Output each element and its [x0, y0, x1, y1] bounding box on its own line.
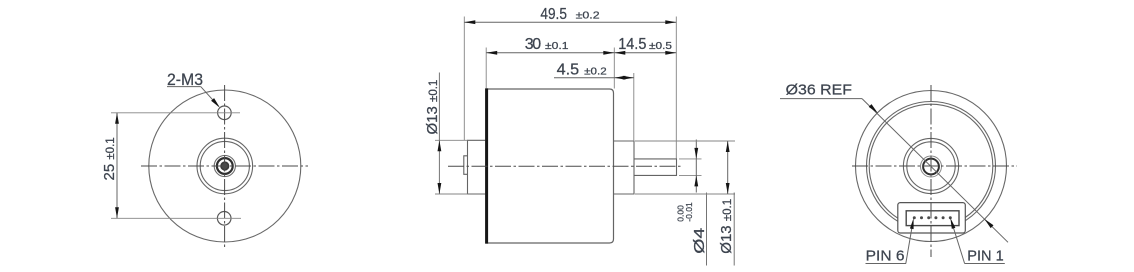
mounting hole top	[218, 106, 232, 120]
25 dim extension line bottom	[111, 217, 241, 219]
PIN 1 underline	[965, 263, 1005, 265]
rear ring inner	[869, 104, 993, 228]
30 ext line left	[485, 48, 487, 89]
rear hub ring outer	[903, 138, 958, 193]
shaft center dot	[221, 162, 229, 170]
49.5 dim line	[464, 21, 676, 23]
svg-text:4.5: 4.5	[557, 62, 580, 79]
25 dim arrow bottom	[115, 207, 119, 218]
motor outer circle (front view)	[149, 90, 301, 242]
body front thick edge	[485, 88, 488, 243]
dia4 ext top	[679, 158, 702, 160]
output shaft (dia 4)	[634, 159, 677, 176]
30 arrow left	[486, 51, 497, 55]
rear outer circle (dia 36)	[856, 91, 1007, 242]
connector pins	[913, 216, 952, 219]
dia13 right ext bottom	[635, 193, 735, 195]
connector inner housing	[906, 211, 959, 226]
rear ring outer	[867, 102, 996, 231]
middle view horizontal centerline	[448, 165, 683, 167]
svg-text:±0.1: ±0.1	[545, 40, 569, 52]
25 dim line	[116, 113, 118, 219]
2-M3 leader	[201, 87, 219, 107]
4.5 arrow left	[614, 76, 625, 80]
mounting hole bottom	[217, 212, 231, 226]
2-M3 underline	[167, 86, 201, 88]
rear stub	[464, 156, 468, 175]
25 dim arrow top	[115, 113, 119, 124]
svg-text:30: 30	[525, 36, 542, 53]
PIN 6 leader	[906, 226, 912, 264]
svg-text:Ø4: Ø4	[691, 228, 708, 254]
dia13 right dim line	[727, 141, 729, 194]
dia4 arrow top (outside, pointing down)	[694, 148, 698, 159]
svg-text:PIN 1: PIN 1	[967, 247, 1003, 264]
right view horizontal centerline	[852, 165, 1017, 167]
dia13 left arrow top	[438, 140, 442, 151]
shaft circle (thick)	[217, 158, 233, 174]
4.5 ext line (shaft step)	[633, 73, 635, 141]
dia13 right ext top	[635, 140, 735, 142]
connector outer housing	[898, 203, 966, 233]
front collar (dia 13)	[614, 141, 635, 194]
dia13 right arrow top	[726, 141, 730, 152]
30/14.5 shared ext line	[613, 48, 615, 89]
PIN 1 arrowhead	[950, 218, 955, 229]
14.5 arrow left	[614, 51, 625, 55]
svg-text:49.5: 49.5	[540, 6, 567, 23]
49.5 ext line left	[463, 17, 465, 141]
14.5 arrow right	[665, 51, 676, 55]
49.5 arrow left	[464, 20, 475, 24]
rear boss (dia 13)	[468, 140, 486, 194]
2-M3 arrowhead	[211, 98, 220, 108]
dia13 right label underline	[733, 193, 735, 266]
hub outer ring	[197, 138, 253, 194]
30 dim line	[486, 52, 614, 54]
49.5 arrow right	[665, 20, 676, 24]
dia13 left arrow bottom	[438, 183, 442, 194]
rear hub ring inner	[907, 142, 955, 190]
4.5 arrow right	[623, 76, 634, 80]
left view vertical centerline	[224, 85, 226, 248]
left view horizontal centerline	[141, 165, 308, 167]
motor body rectangle	[486, 89, 614, 243]
bearing boss circle	[214, 155, 235, 176]
svg-text:±0.2: ±0.2	[576, 10, 600, 22]
PIN 6 underline	[866, 263, 907, 265]
dia36 arrow upper-left	[869, 104, 878, 113]
svg-text:±0.5: ±0.5	[649, 40, 672, 52]
dia36 diagonal leader	[862, 99, 1008, 243]
dia13 left ext top	[435, 139, 468, 141]
14.5 dim line	[614, 52, 676, 54]
dia13 left ext bottom	[435, 193, 468, 195]
svg-text:Ø36 REF: Ø36 REF	[786, 82, 852, 99]
svg-text:14.5: 14.5	[618, 36, 646, 53]
25 dim extension line top	[111, 112, 240, 114]
right view vertical centerline	[930, 85, 932, 257]
dia36 label underline	[780, 98, 862, 100]
svg-text:-0.01: -0.01	[684, 202, 694, 222]
dia4 label underline	[706, 193, 708, 266]
dia36 arrow lower-right	[984, 219, 993, 228]
svg-text:±0.2: ±0.2	[584, 65, 607, 77]
4.5 dim line	[554, 77, 634, 79]
dia4 dim line	[695, 140, 697, 193]
PIN 6 arrowhead	[910, 218, 914, 229]
49.5 ext line right	[675, 17, 677, 159]
dia13 right arrow bottom	[726, 183, 730, 194]
rear shaft circle (thick)	[923, 159, 939, 175]
rear bearing circle	[921, 156, 942, 177]
30 arrow right	[603, 51, 614, 55]
hub inner ring	[200, 141, 249, 190]
PIN 1 leader	[953, 226, 965, 264]
dia13 left dim line + label underline	[438, 73, 440, 195]
dia4 ext bottom	[679, 174, 702, 176]
dia4 arrow bottom (outside, pointing up)	[694, 175, 698, 186]
svg-text:PIN 6: PIN 6	[866, 247, 905, 264]
